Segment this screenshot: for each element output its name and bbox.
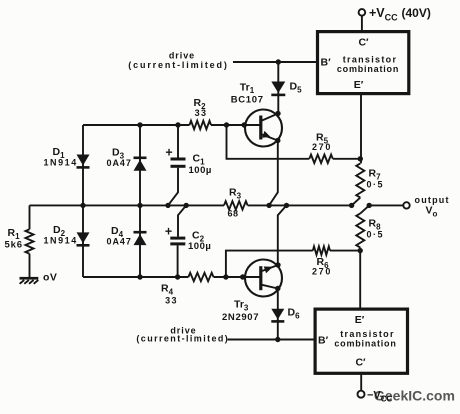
svg-text:combination: combination bbox=[337, 64, 399, 74]
svg-text:B′: B′ bbox=[318, 335, 329, 347]
svg-text:68: 68 bbox=[227, 209, 238, 219]
svg-text:E′: E′ bbox=[354, 79, 364, 91]
svg-text:+: + bbox=[165, 225, 172, 239]
svg-text:output: output bbox=[415, 195, 450, 205]
svg-text:BC107: BC107 bbox=[231, 94, 264, 105]
svg-text:5k6: 5k6 bbox=[5, 240, 23, 251]
svg-text:drive: drive bbox=[169, 51, 195, 61]
svg-text:transistor: transistor bbox=[343, 55, 398, 65]
svg-text:C′: C′ bbox=[355, 357, 366, 369]
svg-text:33: 33 bbox=[195, 108, 208, 118]
svg-text:2N2907: 2N2907 bbox=[222, 312, 259, 323]
svg-text:1N914: 1N914 bbox=[44, 158, 78, 168]
svg-text:(current-limited): (current-limited) bbox=[128, 60, 228, 70]
svg-text:(current-limited): (current-limited) bbox=[136, 334, 229, 344]
svg-text:100µ: 100µ bbox=[188, 241, 211, 252]
svg-text:transistor: transistor bbox=[340, 329, 395, 339]
svg-text:0A47: 0A47 bbox=[107, 237, 132, 247]
svg-text:33: 33 bbox=[165, 296, 178, 306]
svg-text:0A47: 0A47 bbox=[107, 158, 132, 168]
svg-text:270: 270 bbox=[312, 142, 332, 152]
svg-text:oV: oV bbox=[43, 272, 57, 284]
svg-text:+: + bbox=[165, 146, 172, 160]
svg-text:100µ: 100µ bbox=[189, 165, 212, 176]
svg-text:B′: B′ bbox=[321, 57, 332, 69]
svg-text:(40V): (40V) bbox=[402, 6, 431, 20]
svg-text:0·5: 0·5 bbox=[367, 180, 385, 190]
svg-text:1N914: 1N914 bbox=[44, 236, 78, 246]
svg-text:0·5: 0·5 bbox=[367, 230, 385, 240]
svg-text:combination: combination bbox=[334, 339, 396, 349]
svg-text:E′: E′ bbox=[355, 314, 365, 326]
svg-text:270: 270 bbox=[312, 267, 332, 277]
svg-text:C′: C′ bbox=[358, 37, 369, 49]
